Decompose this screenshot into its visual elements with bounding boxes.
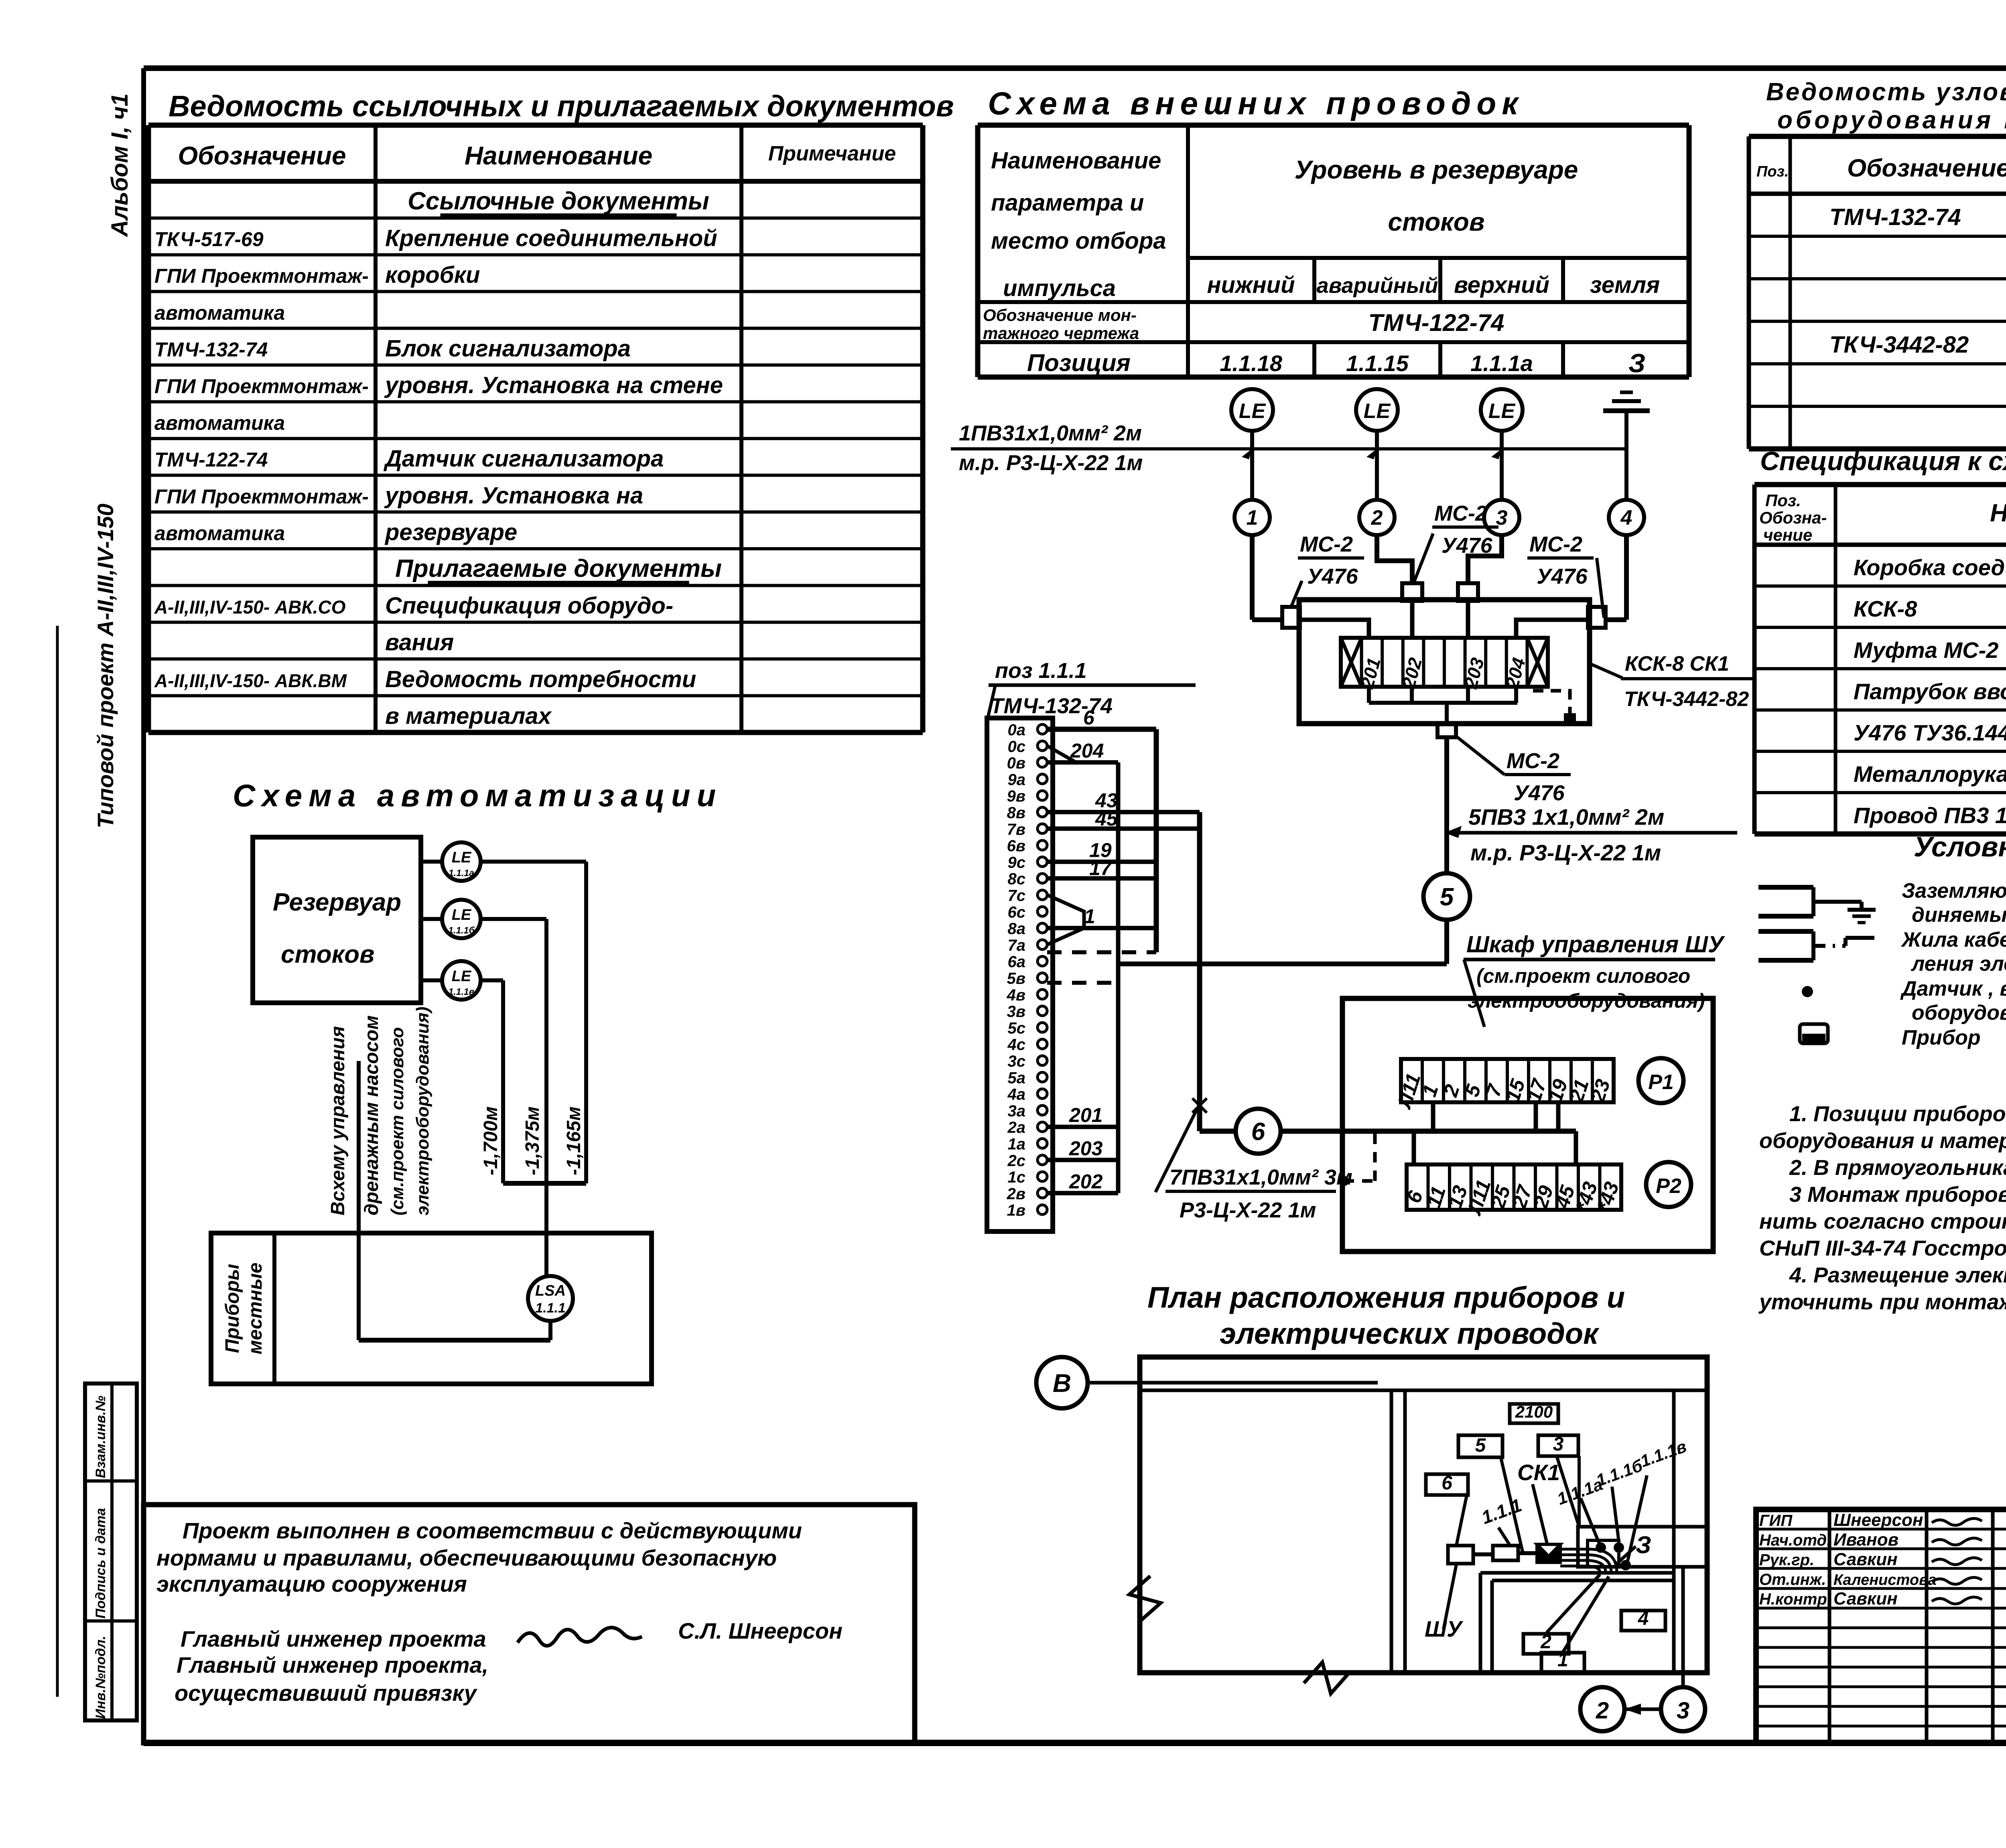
svg-text:электрооборудования): электрооборудования) (1468, 990, 1705, 1012)
svg-text:Ведомость ссылочных и прилагае: Ведомость ссылочных и прилагаемых докуме… (169, 89, 954, 123)
svg-text:Прилагаемые документы: Прилагаемые документы (395, 555, 722, 582)
svg-text:автоматика: автоматика (154, 412, 285, 434)
svg-text:Спецификация к схеме внешних: Спецификация к схеме внешних проводок (1760, 446, 2006, 476)
svg-text:ТМЧ-132-74: ТМЧ-132-74 (1829, 204, 1961, 230)
svg-text:м.р. Р3-Ц-Х-22 1м: м.р. Р3-Ц-Х-22 1м (959, 451, 1143, 475)
svg-text:А-II,III,IV-150- АВК.ВМ: А-II,III,IV-150- АВК.ВМ (154, 670, 347, 691)
svg-text:Н.контр.: Н.контр. (1759, 1590, 1831, 1608)
svg-text:1.1.1в: 1.1.1в (448, 986, 474, 997)
svg-text:ГПИ Проектмонтаж-: ГПИ Проектмонтаж- (154, 485, 369, 508)
svg-text:тажного чертежа: тажного чертежа (983, 324, 1139, 343)
svg-text:Инв.№подл.: Инв.№подл. (93, 1636, 108, 1719)
svg-text:(см.проект силового: (см.проект силового (1476, 965, 1690, 987)
svg-text:2: 2 (1596, 1698, 1609, 1724)
svg-text:0в: 0в (1007, 755, 1025, 772)
svg-text:0с: 0с (1008, 738, 1026, 755)
svg-text:5в: 5в (1007, 970, 1025, 988)
svg-text:Наименование: Наименование (991, 148, 1161, 174)
svg-text:Шкаф управления ШУ: Шкаф управления ШУ (1466, 931, 1725, 957)
svg-text:4в: 4в (1007, 986, 1025, 1004)
svg-text:Нач.отд.: Нач.отд. (1759, 1532, 1831, 1549)
svg-text:Взам.инв.№: Взам.инв.№ (93, 1396, 108, 1478)
svg-text:КСК-8: КСК-8 (1854, 596, 1917, 621)
svg-text:Обозначение: Обозначение (1847, 154, 2006, 182)
svg-text:коробки: коробки (385, 262, 480, 288)
svg-text:Ведомость узлов установки э: Ведомость узлов установки электрического (1766, 78, 2006, 106)
svg-text:4: 4 (1620, 506, 1632, 529)
svg-text:План расположения приборов и: План расположения приборов и (1147, 1281, 1625, 1314)
svg-text:ТКЧ-517-69: ТКЧ-517-69 (154, 228, 264, 251)
svg-text:6: 6 (1251, 1118, 1265, 1146)
svg-text:9а: 9а (1008, 771, 1026, 789)
svg-text:4: 4 (1638, 1608, 1649, 1629)
svg-text:203: 203 (1069, 1137, 1103, 1160)
svg-text:2. В прямоугольниках указана: 2. В прямоугольниках указана нумерация п… (1789, 1156, 2006, 1180)
svg-text:Датчик , встраиваемый в тех: Датчик , встраиваемый в технологическое (1900, 977, 2006, 1000)
svg-text:1.1.1б: 1.1.1б (1594, 1456, 1645, 1490)
svg-text:3в: 3в (1007, 1003, 1025, 1020)
svg-text:7в: 7в (1007, 821, 1025, 838)
svg-text:Савкин: Савкин (1833, 1589, 1898, 1609)
svg-text:стоков: стоков (281, 941, 374, 968)
svg-text:Ведомость потребности: Ведомость потребности (385, 666, 696, 692)
svg-text:Каленистова: Каленистова (1833, 1572, 1937, 1588)
svg-text:5а: 5а (1008, 1069, 1026, 1087)
svg-text:LE: LE (1488, 400, 1516, 423)
svg-text:1.1.15: 1.1.15 (1346, 351, 1409, 376)
svg-text:Рук.гр.: Рук.гр. (1759, 1551, 1814, 1569)
svg-text:Схема автоматизации: Схема автоматизации (233, 778, 722, 813)
svg-text:импульса: импульса (1003, 275, 1116, 301)
svg-text:Проект выполнен в соответстви: Проект выполнен в соответствии с действу… (183, 1518, 802, 1543)
svg-text:нить согласно строительным: нить согласно строительным нормам и прав… (1759, 1209, 2006, 1233)
svg-text:Крепление соединительной: Крепление соединительной (385, 225, 717, 252)
svg-text:1: 1 (1557, 1649, 1568, 1671)
svg-text:1а: 1а (1008, 1136, 1026, 1153)
svg-text:202: 202 (1069, 1170, 1103, 1193)
svg-text:ТМЧ-122-74: ТМЧ-122-74 (1368, 309, 1504, 336)
svg-text:Жила кабеля или провода, испол: Жила кабеля или провода, используемая дл… (1900, 928, 2006, 951)
svg-text:параметра и: параметра и (991, 190, 1144, 216)
svg-text:ГПИ Проектмонтаж-: ГПИ Проектмонтаж- (154, 265, 369, 287)
svg-text:1ПВ31х1,0мм² 2м: 1ПВ31х1,0мм² 2м (959, 421, 1142, 445)
svg-text:1.1.1б: 1.1.1б (448, 925, 475, 935)
svg-text:4. Размещение электрических: 4. Размещение электрических и трубных пр… (1789, 1263, 2006, 1287)
svg-text:местные: местные (245, 1263, 266, 1355)
svg-text:-1,375м: -1,375м (522, 1106, 543, 1175)
svg-text:Примечание: Примечание (768, 142, 896, 165)
svg-text:Прибор: Прибор (1902, 1026, 1981, 1049)
svg-text:1с: 1с (1008, 1168, 1026, 1186)
svg-text:45: 45 (1095, 807, 1118, 830)
svg-text:З: З (1636, 1532, 1651, 1558)
svg-text:2: 2 (1371, 506, 1383, 529)
svg-text:2100: 2100 (1515, 1402, 1553, 1421)
svg-text:Обозначение: Обозначение (178, 141, 346, 170)
svg-text:1: 1 (1247, 506, 1258, 529)
svg-text:уровня. Установка на: уровня. Установка на (384, 483, 643, 509)
svg-text:-1,700м: -1,700м (480, 1106, 501, 1175)
svg-text:Поз.: Поз. (1765, 491, 1801, 510)
svg-text:1.1.1а: 1.1.1а (1470, 351, 1533, 376)
svg-text:У476: У476 (1537, 564, 1588, 588)
svg-text:дренажным насосом: дренажным насосом (361, 1015, 382, 1215)
svg-text:эксплуатацию сооружения: эксплуатацию сооружения (156, 1571, 467, 1596)
svg-text:1.1.1: 1.1.1 (535, 1300, 566, 1316)
svg-text:электрооборудования): электрооборудования) (413, 1007, 432, 1215)
svg-text:А-II,III,IV-150- АВК.СО: А-II,III,IV-150- АВК.СО (154, 597, 346, 618)
svg-text:Муфта МС-2 ТУ36.1096-76: Муфта МС-2 ТУ36.1096-76 (1854, 637, 2006, 663)
svg-text:Схема внешних проводок: Схема внешних проводок (988, 85, 1524, 121)
svg-text:нормами и правилами, обеспечив: нормами и правилами, обеспечивающими без… (156, 1545, 777, 1570)
svg-text:6а: 6а (1008, 953, 1026, 971)
svg-text:аварийный: аварийный (1317, 274, 1438, 298)
svg-text:3а: 3а (1008, 1102, 1026, 1120)
svg-text:Наименование: Наименование (1990, 499, 2006, 527)
svg-text:Поз.: Поз. (1756, 163, 1789, 180)
svg-text:2с: 2с (1007, 1152, 1026, 1170)
svg-text:LE: LE (452, 849, 472, 866)
svg-text:5с: 5с (1008, 1019, 1026, 1037)
svg-text:У476: У476 (1514, 781, 1565, 805)
svg-text:Савкин: Савкин (1833, 1550, 1898, 1569)
svg-text:У476: У476 (1307, 564, 1358, 588)
svg-text:Датчик сигнализатора: Датчик сигнализатора (383, 446, 664, 472)
svg-text:3с: 3с (1008, 1053, 1026, 1070)
svg-text:7ПВ31х1,0мм² 3м: 7ПВ31х1,0мм² 3м (1169, 1165, 1352, 1189)
svg-text:Шнеерсон: Шнеерсон (1833, 1510, 1923, 1530)
svg-text:1в: 1в (1007, 1202, 1025, 1219)
svg-text:В: В (1053, 1369, 1071, 1398)
svg-text:2в: 2в (1007, 1185, 1025, 1203)
svg-text:Р2: Р2 (1656, 1175, 1681, 1198)
svg-text:1: 1 (1084, 905, 1095, 928)
svg-text:С.Л. Шнеерсон: С.Л. Шнеерсон (678, 1618, 843, 1643)
svg-text:оборудования на плане распо: оборудования на плане расположения (1777, 106, 2006, 134)
svg-text:верхний: верхний (1454, 272, 1549, 298)
svg-text:Обозначение мон-: Обозначение мон- (983, 306, 1137, 325)
svg-text:в материалах: в материалах (385, 703, 552, 729)
svg-text:5: 5 (1475, 1435, 1486, 1456)
svg-text:3: 3 (1677, 1698, 1689, 1724)
svg-text:ТКЧ-3442-82: ТКЧ-3442-82 (1829, 332, 1969, 358)
svg-text:17: 17 (1089, 857, 1113, 880)
svg-text:Коробка соединительная ТУ36.17: Коробка соединительная ТУ36.1753-75 (1854, 555, 2006, 580)
svg-text:Спецификация оборудо-: Спецификация оборудо- (385, 593, 673, 619)
svg-text:LSA: LSA (535, 1282, 566, 1299)
svg-text:LE: LE (452, 907, 472, 923)
svg-text:СНиП III-34-74 Госстроя ССС: СНиП III-34-74 Госстроя СССР (1759, 1236, 2006, 1260)
svg-text:6: 6 (1442, 1473, 1452, 1494)
svg-text:вания: вания (385, 629, 454, 655)
svg-text:осуществивший привязку: осуществивший привязку (175, 1680, 477, 1706)
svg-text:Главный инженер проекта: Главный инженер проекта (181, 1626, 486, 1651)
svg-text:(см.проект силового: (см.проект силового (388, 1027, 407, 1215)
svg-text:уровня. Установка на стене: уровня. Установка на стене (384, 372, 723, 398)
svg-text:автоматика: автоматика (154, 522, 285, 544)
svg-text:LE: LE (452, 968, 472, 985)
svg-text:ления электроустановок: ления электроустановок (1911, 952, 2006, 976)
svg-text:0а: 0а (1008, 721, 1026, 739)
svg-text:6: 6 (1083, 706, 1095, 729)
svg-text:Патрубок вводной: Патрубок вводной (1854, 679, 2006, 704)
svg-text:ТКЧ-3442-82: ТКЧ-3442-82 (1624, 688, 1749, 711)
svg-text:8в: 8в (1007, 804, 1025, 822)
svg-text:У476: У476 (1442, 534, 1493, 558)
svg-text:5ПВ3 1х1,0мм² 2м: 5ПВ3 1х1,0мм² 2м (1468, 804, 1664, 830)
svg-text:ТМЧ-122-74: ТМЧ-122-74 (154, 448, 268, 471)
svg-text:Провод ПВ3 1,0 380 ГОСТ632: Провод ПВ3 1,0 380 ГОСТ6323-79* (1854, 803, 2006, 828)
svg-text:6в: 6в (1007, 837, 1025, 855)
svg-text:-1,165м: -1,165м (563, 1106, 585, 1175)
svg-text:электрических проводок: электрических проводок (1220, 1317, 1600, 1350)
svg-text:Р1: Р1 (1648, 1071, 1674, 1094)
svg-text:Обозна-: Обозна- (1759, 508, 1827, 527)
svg-text:9в: 9в (1007, 787, 1025, 805)
svg-text:Условные обозначения: Условные обозначения (1914, 831, 2006, 862)
svg-text:стоков: стоков (1388, 207, 1485, 236)
svg-text:оборудования и материалов, п: оборудования и материалов, поставляемых … (1759, 1129, 2006, 1153)
svg-text:Позиция: Позиция (1027, 349, 1131, 376)
svg-text:Наименование: Наименование (465, 141, 652, 170)
svg-text:У476 ТУ36.1447-77: У476 ТУ36.1447-77 (1854, 720, 2006, 745)
svg-text:4с: 4с (1007, 1036, 1026, 1054)
svg-text:Резервуар: Резервуар (273, 889, 401, 916)
svg-text:СК1: СК1 (1517, 1460, 1560, 1485)
svg-text:диняемый к металлоконструкци: диняемый к металлоконструкции (1912, 903, 2006, 927)
svg-text:ГИП: ГИП (1759, 1512, 1793, 1530)
svg-text:оборудование: оборудование (1912, 1001, 2006, 1024)
svg-text:1. Позиции приборов указан: 1. Позиции приборов указаны согласно спе… (1789, 1102, 2006, 1126)
svg-text:8а: 8а (1008, 920, 1026, 938)
svg-text:Альбом I, ч1: Альбом I, ч1 (107, 93, 133, 237)
svg-text:6с: 6с (1008, 903, 1026, 921)
svg-text:Иванов: Иванов (1833, 1530, 1898, 1550)
svg-text:автоматика: автоматика (154, 302, 285, 324)
svg-text:Всхему управления: Всхему управления (327, 1026, 349, 1215)
svg-text:место отбора: место отбора (991, 228, 1166, 254)
svg-text:Приборы: Приборы (222, 1264, 243, 1353)
svg-text:Ссылочные документы: Ссылочные документы (408, 187, 709, 215)
svg-text:Главный инженер проекта,: Главный инженер проекта, (177, 1652, 488, 1678)
svg-text:МС-2: МС-2 (1300, 532, 1353, 556)
svg-text:204: 204 (1070, 740, 1104, 762)
svg-text:МС-2: МС-2 (1434, 501, 1487, 525)
svg-text:Заземляющий проводник электроу: Заземляющий проводник электроустановки, … (1902, 879, 2006, 903)
svg-text:201: 201 (1069, 1104, 1102, 1126)
svg-text:9с: 9с (1008, 854, 1026, 871)
svg-text:7с: 7с (1008, 887, 1026, 905)
svg-text:3 Монтаж приборов и сред: 3 Монтаж приборов и средств автоматизаци… (1789, 1183, 2006, 1207)
svg-text:Блок сигнализатора: Блок сигнализатора (385, 335, 631, 361)
svg-text:ТМЧ-132-74: ТМЧ-132-74 (154, 338, 268, 361)
svg-text:5: 5 (1440, 883, 1454, 911)
svg-text:МС-2: МС-2 (1507, 749, 1559, 773)
svg-text:От.инж.: От.инж. (1759, 1571, 1826, 1588)
svg-text:Типовой проект А-II,III,IV-150: Типовой проект А-II,III,IV-150 (93, 503, 118, 828)
svg-text:ГПИ Проектмонтаж-: ГПИ Проектмонтаж- (154, 375, 369, 398)
svg-text:КСК-8 СК1: КСК-8 СК1 (1625, 652, 1729, 676)
svg-text:Подпись и дата: Подпись и дата (93, 1508, 108, 1619)
svg-text:земля: земля (1590, 272, 1660, 298)
svg-text:8с: 8с (1008, 870, 1026, 888)
svg-text:Уровень в резервуаре: Уровень в резервуаре (1295, 155, 1578, 184)
svg-text:1.1.1а: 1.1.1а (449, 868, 474, 878)
svg-text:2а: 2а (1007, 1119, 1026, 1136)
svg-text:4а: 4а (1007, 1086, 1026, 1104)
svg-text:1.1.1в: 1.1.1в (1638, 1437, 1689, 1471)
svg-text:МС-2: МС-2 (1529, 532, 1582, 556)
svg-text:З: З (1628, 348, 1645, 378)
svg-text:нижний: нижний (1207, 272, 1295, 298)
svg-text:уточнить при монтаже: уточнить при монтаже (1758, 1290, 2006, 1314)
svg-text:7а: 7а (1008, 937, 1026, 954)
svg-text:Р3-Ц-Х-22 1м: Р3-Ц-Х-22 1м (1180, 1198, 1316, 1222)
svg-text:3: 3 (1553, 1434, 1564, 1455)
svg-text:Металлорукав Р3-Ц-Х-22ТУ22-3.9: Металлорукав Р3-Ц-Х-22ТУ22-3.988-77 (1854, 761, 2006, 787)
svg-text:чение: чение (1763, 525, 1812, 544)
svg-text:резервуаре: резервуаре (384, 519, 517, 545)
svg-text:LE: LE (1364, 400, 1391, 423)
svg-text:м.р. Р3-Ц-Х-22 1м: м.р. Р3-Ц-Х-22 1м (1470, 840, 1661, 865)
svg-text:LE: LE (1239, 400, 1266, 423)
svg-text:2: 2 (1540, 1631, 1551, 1653)
svg-text:1.1.18: 1.1.18 (1220, 351, 1283, 376)
svg-text:поз 1.1.1: поз 1.1.1 (995, 659, 1087, 683)
